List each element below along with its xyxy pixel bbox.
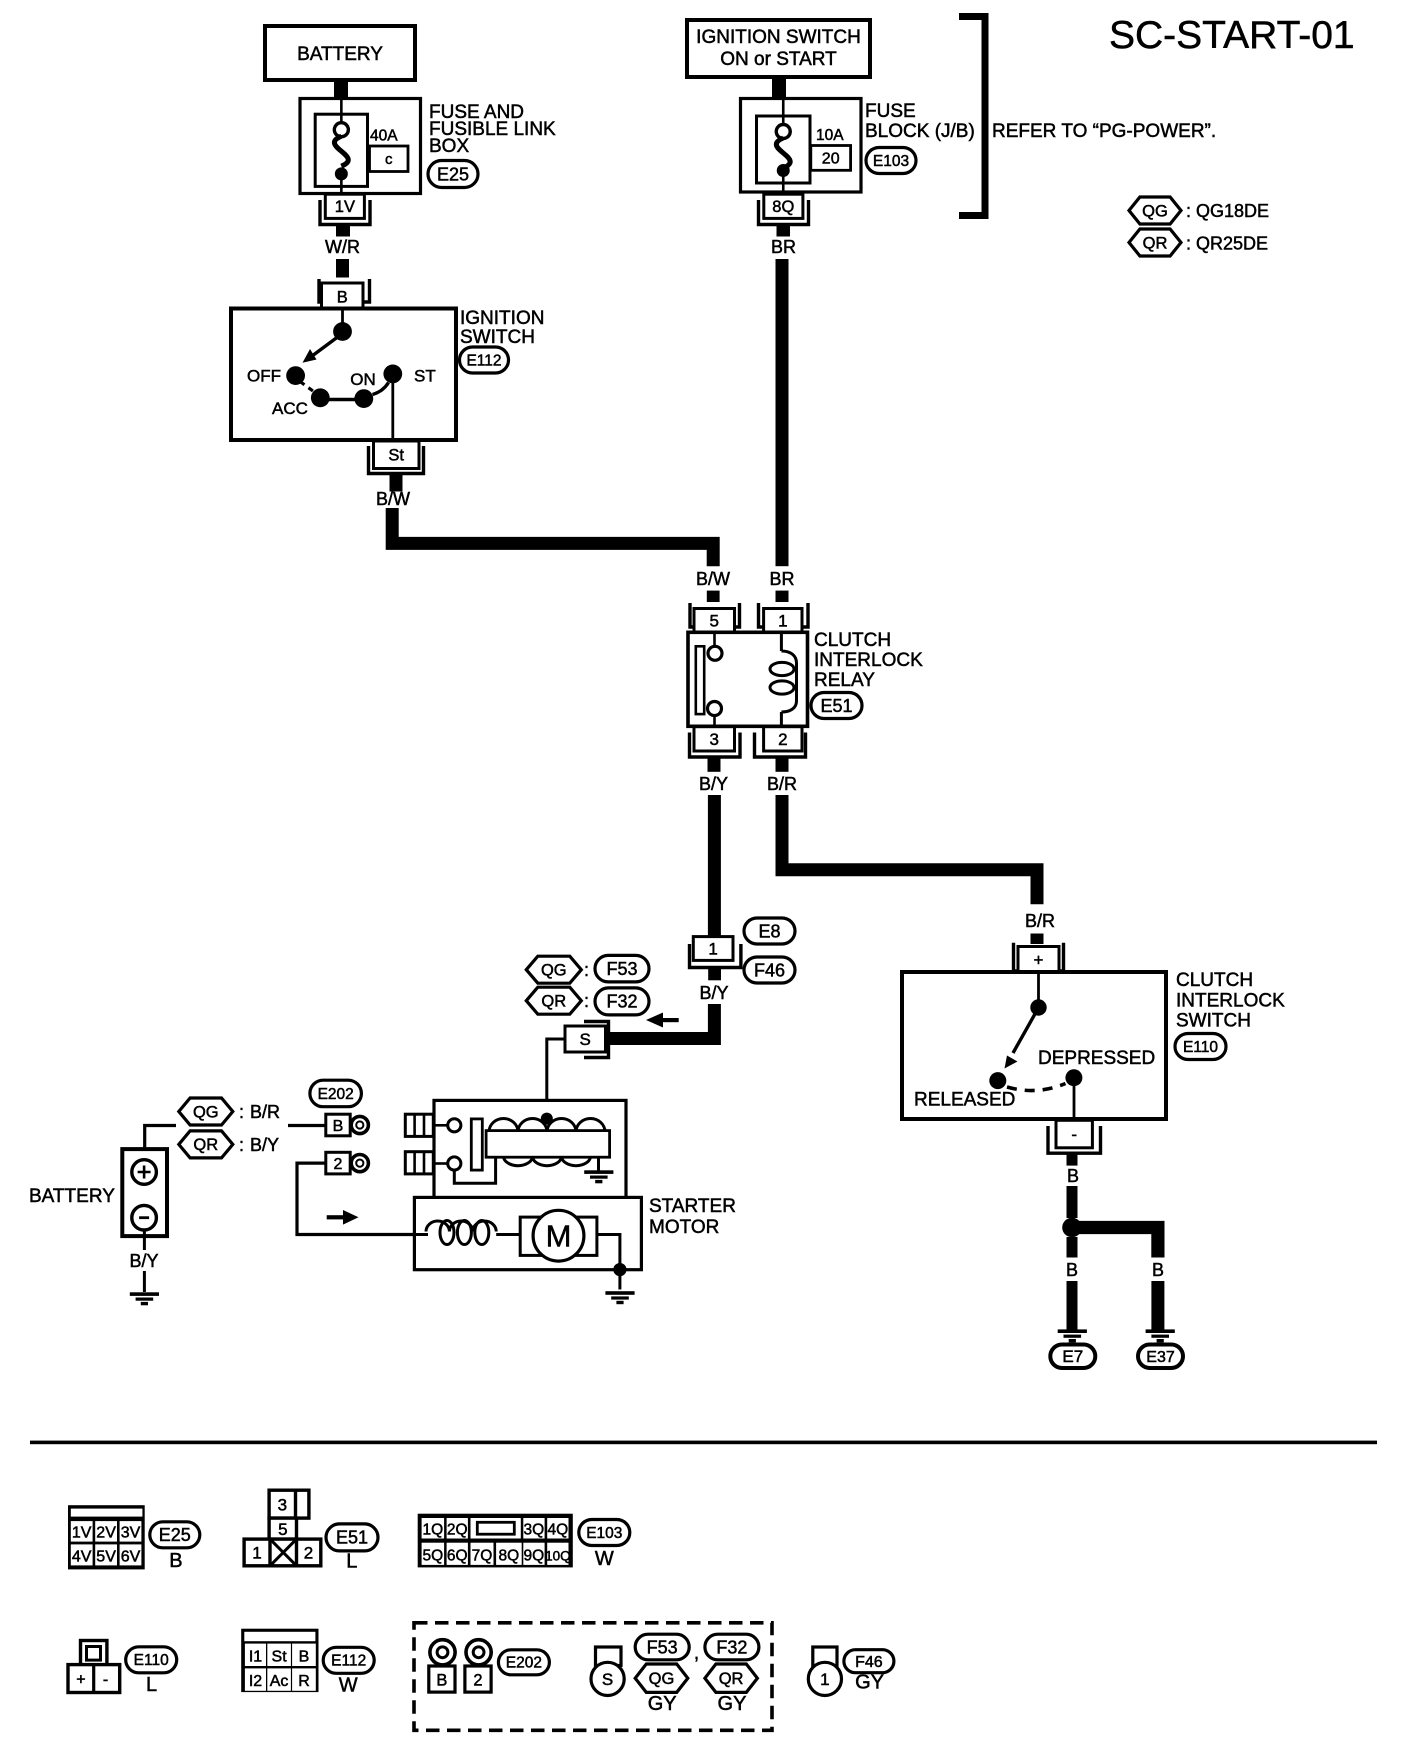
- ground symbol inside solenoid: [584, 1170, 613, 1183]
- svg-text:5V: 5V: [96, 1548, 116, 1565]
- svg-text:ON or START: ON or START: [720, 49, 837, 70]
- switch arrow toward OFF: [310, 336, 339, 358]
- switch pivot dot: [1030, 999, 1046, 1015]
- fuse number 20 box: [811, 146, 851, 171]
- svg-text:F32: F32: [716, 1637, 747, 1657]
- wire stub above relay pin 1: [776, 591, 789, 602]
- relay pin 2: [764, 727, 802, 751]
- starter motor M: [520, 1210, 597, 1261]
- wire B/Y pin3 down to joint connector: [708, 795, 721, 937]
- svg-text:B: B: [299, 1648, 310, 1665]
- svg-text:1: 1: [708, 940, 717, 959]
- svg-text:S: S: [602, 1670, 613, 1689]
- wire stub below 8Q: [777, 226, 791, 237]
- svg-text:ST: ST: [414, 367, 436, 386]
- connector 8Q bracket: [759, 200, 809, 225]
- fusible link c box: [370, 146, 409, 172]
- connector B bracket: [319, 279, 370, 302]
- svg-text:B: B: [436, 1671, 447, 1689]
- svg-text:B: B: [333, 1118, 344, 1135]
- svg-text:B: B: [169, 1550, 182, 1572]
- svg-text:W: W: [595, 1548, 614, 1570]
- relay pin 5 bracket: [690, 603, 740, 627]
- svg-text:IGNITION: IGNITION: [460, 308, 544, 329]
- wire B to ground E7: [1067, 1281, 1078, 1330]
- connector terminal B (E202): [326, 1114, 350, 1136]
- svg-text:10Q: 10Q: [545, 1548, 571, 1563]
- svg-text:L: L: [346, 1551, 357, 1573]
- relay contact circle lower: [708, 702, 722, 716]
- svg-text:M: M: [546, 1219, 572, 1254]
- svg-text:B: B: [337, 288, 348, 306]
- wire B to ground E37: [1151, 1281, 1164, 1330]
- svg-text:B/W: B/W: [376, 489, 410, 509]
- wire B pin into switch: [341, 310, 344, 326]
- starter motor box: [414, 1197, 641, 1269]
- joint connector 1 bracket: [690, 944, 741, 968]
- legend terminal 2 (E202): [465, 1640, 491, 1692]
- svg-text:8Q: 8Q: [499, 1547, 520, 1564]
- svg-text:L: L: [146, 1674, 157, 1696]
- wire stub above relay pin 5: [707, 591, 720, 602]
- svg-text:BR: BR: [769, 569, 794, 589]
- legend label F32: [705, 1634, 759, 1660]
- coil ground lead: [597, 1157, 600, 1171]
- svg-text:CLUTCH: CLUTCH: [1176, 970, 1253, 991]
- svg-text:3V: 3V: [121, 1524, 141, 1541]
- svg-text:INTERLOCK: INTERLOCK: [1176, 991, 1285, 1012]
- legend connector E25 face: [68, 1505, 145, 1569]
- starter S terminal bracket: [584, 1022, 609, 1058]
- legend label F53: [635, 1634, 689, 1660]
- svg-text:F53: F53: [606, 959, 637, 979]
- battery + terminal circle: [132, 1160, 157, 1185]
- svg-text:E103: E103: [873, 153, 909, 170]
- relay movable contact bar: [696, 646, 704, 714]
- svg-text:BLOCK (J/B): BLOCK (J/B): [865, 121, 975, 142]
- curved link ON to ST: [373, 383, 389, 395]
- legend terminal B (E202): [429, 1640, 455, 1692]
- svg-text:GY: GY: [855, 1672, 884, 1694]
- lead into inductor: [414, 1233, 428, 1236]
- svg-text:E7: E7: [1062, 1347, 1083, 1366]
- svg-text:W/R: W/R: [325, 237, 360, 257]
- wire B/W from ignition switch to relay pin 5: [392, 508, 713, 566]
- svg-text:QR: QR: [193, 1136, 218, 1154]
- switch arrow toward RELEASED: [1013, 1013, 1036, 1053]
- legend label E110: [126, 1647, 177, 1673]
- svg-text:B/R: B/R: [250, 1102, 280, 1122]
- svg-text:B: B: [1152, 1260, 1164, 1280]
- ground symbol E7: [1058, 1329, 1087, 1342]
- svg-text:OFF: OFF: [247, 367, 281, 386]
- relay pin 1: [764, 609, 802, 633]
- ground symbol starter motor: [605, 1291, 634, 1304]
- svg-text:E112: E112: [331, 1653, 366, 1670]
- key hexagon QR (B/Y): [179, 1131, 233, 1158]
- svg-text:STARTER: STARTER: [649, 1196, 736, 1217]
- wire from terminal 2 down to starter motor: [297, 1163, 414, 1234]
- connector pin B: [322, 283, 364, 310]
- solenoid pull-in coil: [486, 1119, 609, 1166]
- solenoid contact circle upper: [448, 1119, 461, 1132]
- svg-text:CLUTCH: CLUTCH: [814, 630, 891, 651]
- wire stub below St: [390, 475, 403, 492]
- wire stub below 1V: [336, 226, 350, 237]
- wire B continue below junction: [1067, 1237, 1078, 1258]
- solenoid terminal stub lower: [405, 1152, 433, 1174]
- svg-text:E51: E51: [820, 696, 852, 716]
- svg-text:FUSE: FUSE: [865, 101, 916, 122]
- connector label F32: [595, 988, 649, 1015]
- legend connector E110 face: [68, 1641, 120, 1693]
- lead to solenoid contact lower: [434, 1162, 448, 1165]
- svg-text:7Q: 7Q: [472, 1547, 493, 1564]
- legend label E202: [498, 1650, 549, 1675]
- legend hexagon QR: [705, 1664, 758, 1692]
- svg-text:4V: 4V: [72, 1548, 92, 1565]
- svg-text:10A: 10A: [816, 127, 844, 144]
- connector St bracket: [369, 446, 424, 474]
- battery box: [122, 1149, 167, 1236]
- svg-text:QR: QR: [541, 993, 566, 1011]
- svg-text:: QR25DE: : QR25DE: [1186, 234, 1268, 254]
- terminal eyelet 2: [351, 1155, 368, 1172]
- svg-text:SWITCH: SWITCH: [460, 327, 535, 348]
- wire + pin into switch: [1037, 973, 1040, 1001]
- legend terminal 1 (F46): [808, 1647, 841, 1696]
- key hexagon QG (F53): [526, 956, 581, 983]
- svg-text:R: R: [298, 1673, 310, 1690]
- connector label E25: [428, 161, 478, 188]
- dashed link OFF to ACC: [300, 382, 317, 395]
- wire ST to St pin: [391, 380, 394, 441]
- svg-text:B/Y: B/Y: [250, 1135, 279, 1155]
- fuse 10A (E103): [741, 99, 862, 193]
- relay coil: [770, 633, 797, 727]
- key hexagon QG (B/R): [179, 1098, 233, 1125]
- svg-text:3: 3: [278, 1496, 287, 1515]
- svg-text:2Q: 2Q: [447, 1521, 468, 1538]
- svg-text:3Q: 3Q: [524, 1521, 545, 1538]
- relay contact lead upper: [713, 632, 716, 647]
- starter inductor winding: [426, 1221, 496, 1245]
- ground symbol E37: [1146, 1329, 1175, 1342]
- svg-text:2: 2: [778, 730, 787, 749]
- connector 1V bracket: [320, 200, 370, 225]
- svg-text:W: W: [339, 1675, 358, 1697]
- svg-text:40A: 40A: [370, 128, 398, 145]
- svg-text:BATTERY: BATTERY: [29, 1186, 115, 1207]
- svg-text:QR: QR: [1143, 234, 1168, 252]
- legend terminal S: [591, 1647, 624, 1696]
- svg-text:1V: 1V: [72, 1524, 92, 1541]
- relay pin 1 bracket: [759, 603, 809, 627]
- wire W/R stub to B: [336, 259, 349, 278]
- legend label E112: [323, 1647, 374, 1673]
- svg-text:E103: E103: [586, 1525, 622, 1542]
- svg-text:St: St: [388, 447, 404, 465]
- svg-text:Ac: Ac: [270, 1673, 289, 1690]
- svg-text:QR: QR: [719, 1670, 744, 1688]
- svg-text:E202: E202: [506, 1655, 542, 1672]
- svg-text:+: +: [1034, 950, 1044, 969]
- svg-text:St: St: [272, 1648, 288, 1665]
- svg-text:B/Y: B/Y: [699, 774, 728, 794]
- relay contact circle upper: [708, 646, 722, 660]
- svg-text:B: B: [1067, 1166, 1079, 1186]
- svg-text:E51: E51: [336, 1528, 368, 1548]
- wire stub below pin 3: [708, 758, 721, 772]
- connector label E103: [866, 148, 916, 174]
- svg-text:E110: E110: [1183, 1039, 1218, 1056]
- svg-text:E8: E8: [758, 921, 780, 941]
- svg-text::: :: [584, 991, 589, 1011]
- switch common contact dot: [333, 322, 352, 341]
- svg-text:5: 5: [278, 1520, 287, 1539]
- svg-text:GY: GY: [648, 1693, 677, 1715]
- svg-text:5Q: 5Q: [423, 1547, 444, 1564]
- svg-text:E112: E112: [466, 352, 501, 369]
- arrow pointing right on starter feed: [327, 1210, 359, 1225]
- svg-text:ACC: ACC: [272, 399, 308, 418]
- joint connector pin 1: [693, 937, 733, 961]
- lead to solenoid contact upper: [434, 1124, 448, 1127]
- svg-text:3: 3: [709, 730, 718, 749]
- lead from lower contact to coil: [454, 1158, 495, 1183]
- battery - terminal circle: [132, 1205, 157, 1230]
- relay contact lead lower: [713, 716, 716, 727]
- svg-text:E25: E25: [437, 164, 469, 184]
- svg-text:IGNITION SWITCH: IGNITION SWITCH: [696, 27, 861, 48]
- wire from S terminal to solenoid coil: [547, 1039, 565, 1119]
- ground label E37: [1138, 1345, 1183, 1369]
- svg-text:S: S: [580, 1030, 591, 1049]
- wire branch right from junction: [1072, 1228, 1158, 1258]
- wire into fuse block: [772, 76, 786, 99]
- svg-text:MOTOR: MOTOR: [649, 1217, 719, 1238]
- ignition switch ON or START source box: [687, 20, 870, 77]
- svg-text:,: ,: [694, 1643, 699, 1664]
- connector pin 8Q: [764, 194, 803, 218]
- ground label E7: [1050, 1345, 1095, 1369]
- svg-text::: :: [239, 1135, 244, 1155]
- svg-text:SC-START-01: SC-START-01: [1109, 14, 1355, 57]
- svg-text:E202: E202: [318, 1086, 354, 1103]
- svg-text:DEPRESSED: DEPRESSED: [1038, 1048, 1155, 1069]
- svg-text::: :: [584, 960, 589, 980]
- svg-text:20: 20: [822, 151, 840, 168]
- starter terminal S: [565, 1026, 606, 1052]
- svg-text:BATTERY: BATTERY: [297, 44, 383, 65]
- svg-text:QG: QG: [649, 1670, 675, 1688]
- svg-text:GY: GY: [718, 1693, 747, 1715]
- relay pin 3: [694, 727, 735, 751]
- solenoid movable contact bar: [471, 1119, 482, 1170]
- legend connector E103 face: [418, 1514, 573, 1568]
- svg-text:E110: E110: [134, 1652, 169, 1669]
- relay pin 2 bracket: [755, 733, 806, 758]
- ignition switch E112 box: [231, 309, 456, 441]
- legend label E51: [326, 1524, 378, 1551]
- relay pin 3 bracket: [690, 733, 741, 758]
- contact dot OFF: [286, 366, 305, 385]
- connector label F46: [744, 957, 795, 983]
- svg-text:I2: I2: [249, 1673, 262, 1690]
- wire stub below -: [1067, 1155, 1078, 1166]
- legend connector E112 face: [241, 1629, 318, 1692]
- wire battery - to ground upper: [143, 1230, 146, 1250]
- svg-text:I1: I1: [249, 1648, 262, 1665]
- link ACC to ON: [329, 398, 355, 401]
- svg-text:5: 5: [709, 611, 718, 630]
- svg-text:REFER TO “PG-POWER”.: REFER TO “PG-POWER”.: [992, 121, 1216, 142]
- clutch interlock switch E110 box: [902, 972, 1166, 1119]
- legend hexagon QG: [635, 1664, 688, 1692]
- wire B down to junction: [1067, 1186, 1078, 1218]
- junction dot: [1062, 1218, 1082, 1238]
- wire stub below joint connector: [708, 969, 721, 981]
- contact dot ON: [354, 389, 373, 408]
- svg-text:E37: E37: [1146, 1349, 1175, 1366]
- connector pin St: [374, 441, 420, 469]
- svg-text:E25: E25: [159, 1525, 191, 1545]
- wire battery - to ground lower: [143, 1271, 146, 1292]
- ground symbol battery: [130, 1292, 159, 1305]
- contact dot ACC: [311, 388, 330, 407]
- svg-text:2V: 2V: [96, 1524, 116, 1541]
- svg-text:6V: 6V: [121, 1548, 141, 1565]
- contact dot ST: [383, 365, 402, 384]
- legend dashed group box: [414, 1623, 772, 1731]
- wire stub above + terminal: [1031, 934, 1044, 945]
- key hexagon QG: [1129, 197, 1181, 224]
- connector label E8: [744, 918, 795, 944]
- svg-text:+: +: [76, 1672, 85, 1689]
- connector terminal 2 (E202): [326, 1152, 350, 1174]
- connector label E112: [460, 347, 509, 373]
- svg-text:2: 2: [304, 1544, 313, 1563]
- svg-text:1: 1: [778, 611, 787, 630]
- svg-text:BR: BR: [771, 237, 796, 257]
- svg-text:QG: QG: [541, 962, 567, 980]
- relay pin 5: [694, 609, 735, 633]
- svg-text:2: 2: [334, 1156, 343, 1173]
- starter solenoid box: [434, 1100, 626, 1202]
- lead motor to ground: [597, 1235, 620, 1290]
- svg-text:F32: F32: [606, 992, 637, 1012]
- connector - bracket: [1048, 1126, 1101, 1153]
- legend label F46: [844, 1650, 894, 1673]
- connector + bracket: [1014, 943, 1064, 971]
- svg-text:c: c: [385, 151, 393, 168]
- wire B/R pin2 to clutch interlock switch: [782, 795, 1037, 904]
- svg-text:QG: QG: [1142, 202, 1168, 220]
- svg-text:1: 1: [252, 1544, 261, 1563]
- contact dot RELEASED: [989, 1072, 1006, 1089]
- svg-text:RELAY: RELAY: [814, 670, 875, 691]
- wire B/Y down and left to starter S terminal: [608, 1004, 714, 1039]
- wire battery to fuse box stub: [334, 79, 348, 99]
- connector label F53: [595, 955, 649, 982]
- contact dot DEPRESSED: [1065, 1069, 1082, 1086]
- svg-text:B/W: B/W: [696, 569, 730, 589]
- dashed arc RELEASED to DEPRESSED: [1007, 1084, 1066, 1091]
- svg-text:9Q: 9Q: [524, 1547, 545, 1564]
- svg-text:QG: QG: [193, 1103, 219, 1121]
- junction dot S wire at coil: [541, 1113, 553, 1125]
- svg-text:RELEASED: RELEASED: [914, 1090, 1015, 1111]
- key hexagon QR: [1129, 229, 1181, 256]
- svg-text:SWITCH: SWITCH: [1176, 1011, 1251, 1032]
- svg-text:F53: F53: [647, 1637, 678, 1657]
- junction dot motor ground at box: [613, 1263, 626, 1276]
- svg-text:B: B: [1066, 1260, 1078, 1280]
- svg-text:ON: ON: [350, 370, 376, 389]
- svg-text:6Q: 6Q: [447, 1547, 468, 1564]
- arrow pointing left at S terminal wire: [646, 1013, 679, 1028]
- connector label E51: [811, 693, 862, 719]
- connector label E110: [1175, 1034, 1226, 1060]
- legend label E103: [579, 1520, 630, 1546]
- wire stub below pin 2: [776, 758, 789, 772]
- connector pin 1V: [325, 194, 364, 218]
- svg-text:-: -: [103, 1672, 108, 1689]
- svg-text:F46: F46: [855, 1654, 883, 1671]
- wire BR down to relay pin 1: [776, 259, 789, 566]
- svg-text::: :: [239, 1102, 244, 1122]
- svg-text:B/R: B/R: [1025, 911, 1055, 931]
- legend label E25: [150, 1522, 200, 1548]
- clutch interlock relay E51 body: [688, 632, 808, 726]
- svg-text:B/R: B/R: [767, 774, 797, 794]
- svg-text:1V: 1V: [335, 198, 355, 216]
- connector pin +: [1018, 947, 1059, 973]
- solenoid terminal stub upper: [405, 1114, 433, 1136]
- wire DEPRESSED to - pin: [1073, 1086, 1076, 1119]
- svg-text:2: 2: [473, 1671, 482, 1689]
- fusible link 40A (E25): [300, 99, 421, 194]
- svg-text:INTERLOCK: INTERLOCK: [814, 650, 923, 671]
- svg-text:B/Y: B/Y: [699, 983, 728, 1003]
- lead inductor to motor: [496, 1233, 520, 1236]
- svg-text:: QG18DE: : QG18DE: [1186, 201, 1269, 221]
- svg-text:1Q: 1Q: [423, 1521, 444, 1538]
- svg-text:8Q: 8Q: [772, 198, 794, 216]
- svg-text:1: 1: [820, 1670, 829, 1689]
- solenoid contact circle lower: [448, 1157, 461, 1170]
- svg-text:4Q: 4Q: [548, 1521, 569, 1538]
- svg-text:BOX: BOX: [429, 136, 469, 157]
- svg-text:F46: F46: [754, 960, 785, 980]
- connector label E202: [310, 1080, 362, 1107]
- connector pin -: [1056, 1120, 1092, 1148]
- battery supply box: [265, 26, 415, 80]
- terminal eyelet B: [351, 1116, 368, 1133]
- svg-text:B/Y: B/Y: [129, 1251, 158, 1271]
- svg-text:-: -: [1071, 1125, 1077, 1144]
- wire battery + to E202 B terminal: [145, 1126, 326, 1150]
- key hexagon QR (F32): [526, 987, 581, 1014]
- separator rule: [30, 1441, 1377, 1445]
- legend connector E51 face: [244, 1490, 321, 1566]
- refer bracket to PG-POWER: [959, 17, 985, 216]
